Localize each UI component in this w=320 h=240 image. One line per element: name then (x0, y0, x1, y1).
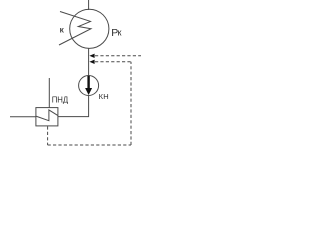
wire: pump discharge down then left to heater (58, 96, 89, 117)
wire: extraction steam line into ПНД (48, 78, 50, 108)
dashed drain: up right side (130, 62, 132, 145)
arrowhead into condensate line (lower) (89, 60, 94, 64)
cooling water zigzag through condenser (59, 12, 91, 46)
pump flow arrow (filled) (87, 76, 89, 89)
wire: exhaust steam line into condenser (88, 0, 90, 10)
arrowhead into condensate line (upper) (89, 54, 94, 58)
wire: main condensate line left of ПНД (10, 116, 36, 118)
dashed drain line from right edge with arrow (95, 55, 141, 57)
dashed drain: bottom horizontal (48, 144, 131, 146)
condenser K (circle) (70, 9, 109, 48)
svg-text:К: К (60, 28, 65, 35)
heating coil inside ПНД (36, 110, 58, 121)
ПНД heater (square) (36, 108, 58, 126)
svg-text:к: к (118, 28, 122, 38)
dashed drain from ПНД: down (47, 126, 49, 145)
condensate pump КН (circle) (79, 76, 99, 96)
svg-text:КН: КН (99, 92, 109, 101)
dashed drain line from ПНД with arrow (horizontal top) (95, 61, 131, 63)
svg-text:ПНД: ПНД (52, 96, 69, 105)
wire: condensate line condenser to pump (88, 48, 90, 75)
